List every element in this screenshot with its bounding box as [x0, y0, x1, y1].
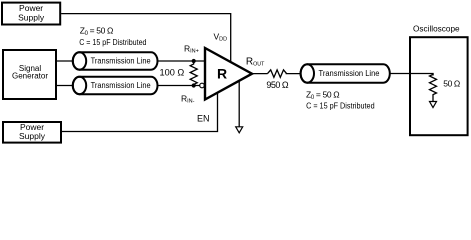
svg-text:950 Ω: 950 Ω — [266, 80, 289, 90]
power supply box (bottom) — [3, 122, 61, 143]
oscilloscope box — [410, 24, 468, 136]
wire transmission line 2 to RIN- — [158, 85, 201, 87]
wire VDD from top power supply — [61, 14, 231, 64]
resistor 950 ohm — [268, 70, 287, 78]
resistor 50 ohm (oscilloscope load) — [430, 74, 437, 102]
ground arrow (oscilloscope) — [430, 102, 437, 108]
transmission line 1 — [73, 52, 158, 69]
ground wire below amp — [238, 80, 240, 127]
wire resistor to transmission line 3 — [286, 73, 302, 75]
wire transmission line 1 to RIN+ — [158, 60, 205, 62]
op-amp buffer R — [205, 48, 252, 100]
svg-text:Transmission Line: Transmission Line — [91, 81, 152, 90]
signal generator box — [3, 50, 56, 99]
transmission line 2 — [73, 77, 158, 94]
power supply box (top) — [2, 3, 60, 25]
svg-text:C = 15 pF Distributed: C = 15 pF Distributed — [79, 38, 146, 47]
svg-text:50 Ω: 50 Ω — [443, 79, 460, 89]
svg-text:C = 15 pF Distributed: C = 15 pF Distributed — [306, 101, 375, 110]
wire signal generator to transmission line 2 — [56, 85, 74, 87]
ground arrow — [236, 127, 243, 133]
inverting input bubble — [200, 83, 205, 88]
wire ROUT — [252, 73, 268, 75]
junction node RIN+ — [192, 59, 196, 63]
junction node RIN- — [192, 83, 196, 87]
svg-text:Supply: Supply — [18, 13, 45, 23]
svg-text:100 Ω: 100 Ω — [160, 68, 185, 78]
wire signal generator to transmission line 1 — [56, 60, 74, 62]
wire transmission line 3 to oscilloscope — [390, 74, 433, 76]
svg-text:Oscilloscope: Oscilloscope — [413, 24, 460, 34]
svg-text:EN: EN — [197, 114, 210, 124]
svg-text:Supply: Supply — [19, 131, 46, 141]
svg-text:Transmission Line: Transmission Line — [91, 57, 152, 66]
svg-text:Transmission Line: Transmission Line — [319, 69, 381, 78]
resistor 100 ohm — [190, 62, 197, 85]
transmission line 3 — [301, 64, 390, 82]
wire EN from bottom power supply — [61, 92, 218, 131]
svg-text:Generator: Generator — [12, 72, 48, 81]
svg-text:R: R — [217, 65, 227, 81]
